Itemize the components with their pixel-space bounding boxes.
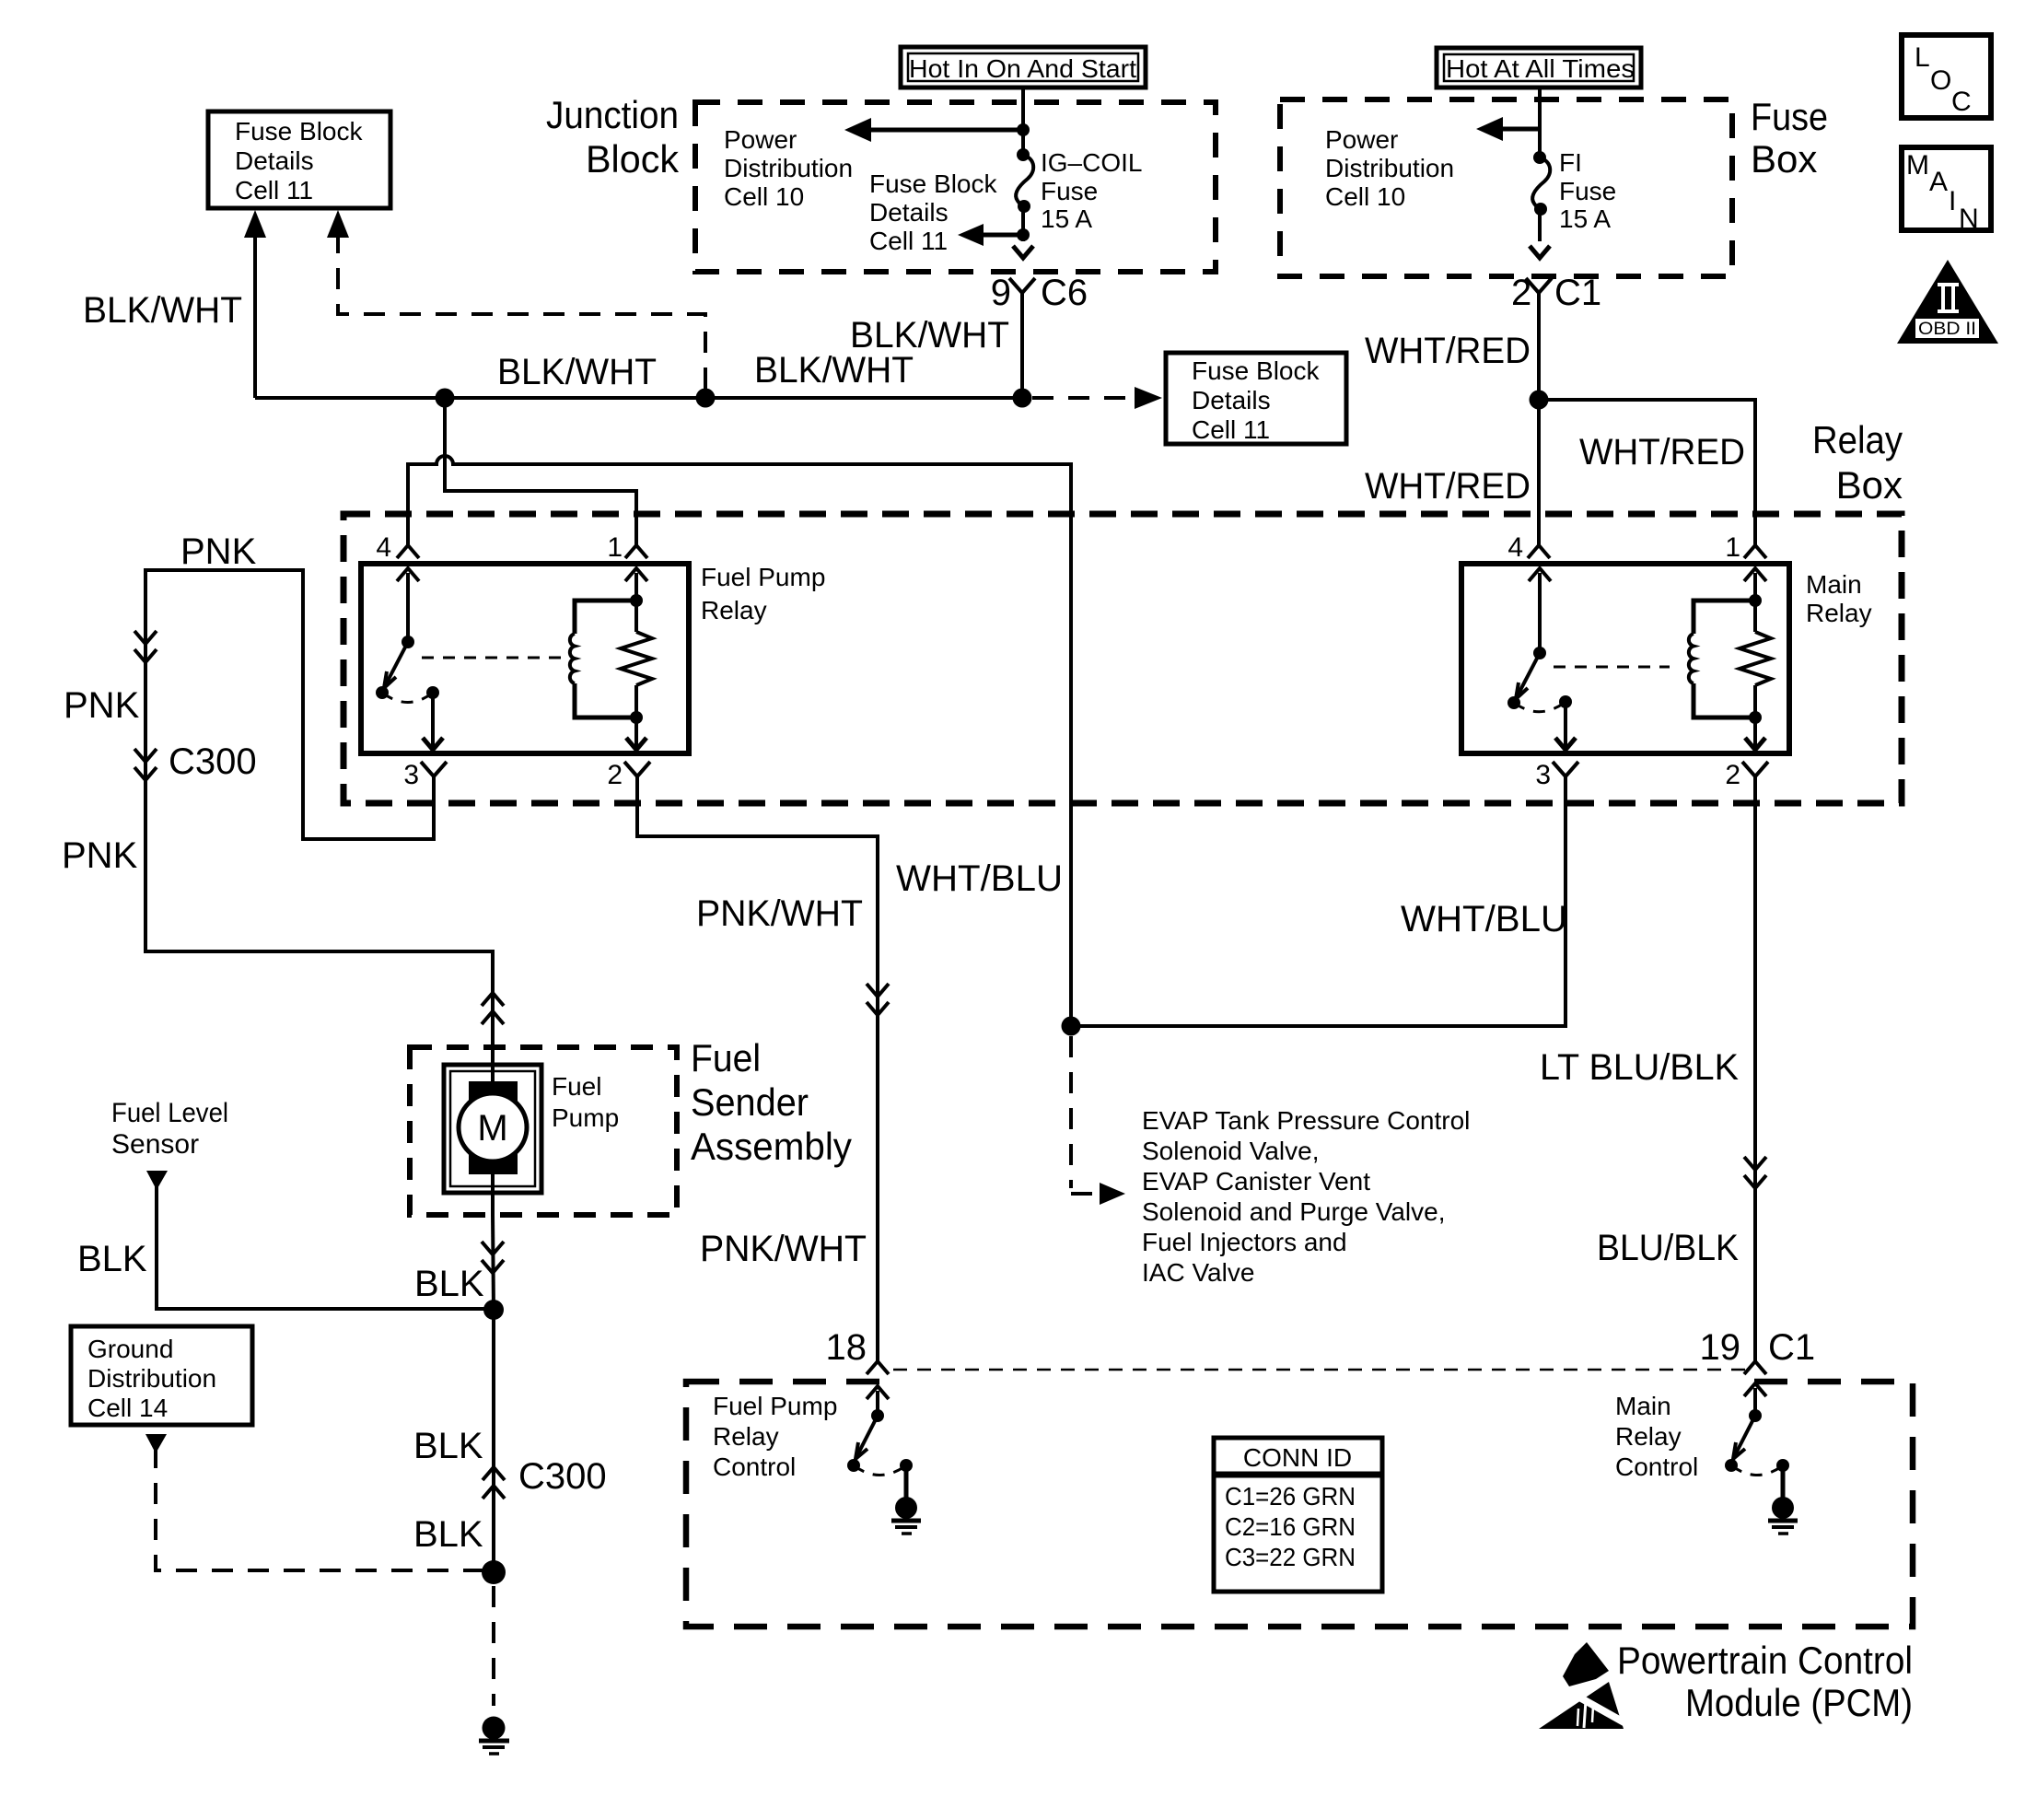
connector: inline chevrons on PNK/WHT: [867, 984, 889, 1015]
wire: dashed BLK/WHT to middle Fuse Block Details box with arrow: [1032, 387, 1162, 409]
resistor: fuel pump relay: [621, 632, 652, 685]
wire: solid BLK/WHT up-arrow into Fuse Block Details box: [244, 210, 266, 398]
node: junction dot B: [696, 389, 716, 408]
svg-text:Fuel Pump: Fuel Pump: [713, 1392, 837, 1420]
svg-text:EVAP Canister Vent: EVAP Canister Vent: [1142, 1167, 1370, 1196]
label: Relay Box: [1812, 418, 1903, 507]
svg-text:Cell 14: Cell 14: [87, 1394, 168, 1422]
wire: dashed EVAP branch with arrow: [1071, 1036, 1125, 1205]
svg-text:Sender: Sender: [691, 1080, 809, 1124]
svg-text:Distribution: Distribution: [724, 154, 853, 182]
node: WHT/RED junction dot: [1530, 391, 1549, 410]
svg-text:Sensor: Sensor: [111, 1129, 199, 1160]
svg-text:C300: C300: [169, 741, 257, 782]
svg-text:C3=22 GRN: C3=22 GRN: [1225, 1543, 1356, 1571]
arrow: open chevron down (fuse box exit): [1530, 246, 1550, 258]
svg-text:WHT/RED: WHT/RED: [1365, 331, 1531, 371]
label: Powertrain Control Module (PCM): [1617, 1639, 1913, 1724]
text: EVAP loads list: [1142, 1106, 1470, 1287]
svg-text:C1=26 GRN: C1=26 GRN: [1225, 1482, 1356, 1511]
svg-text:M: M: [1906, 150, 1929, 181]
box: Fuse Block Details Cell 11 (top left): [208, 111, 390, 208]
svg-text:Relay: Relay: [1812, 418, 1903, 461]
label: Fuse Box: [1751, 95, 1828, 181]
box: Ground Distribution Cell 14: [71, 1326, 252, 1425]
pin 3 connector (main relay): [1535, 760, 1578, 790]
label BLK (above C300): [413, 1426, 483, 1466]
text: Power Distribution Cell 10 (junction block): [724, 125, 853, 211]
label: Fuel Pump: [552, 1072, 619, 1132]
svg-text:PNK: PNK: [64, 685, 140, 726]
arrow: open chevron down (junction block exit): [1013, 246, 1033, 258]
dashed link: fuel pump relay coil to armature: [422, 657, 564, 659]
svg-text:9: 9: [991, 273, 1011, 313]
svg-text:Details: Details: [235, 146, 314, 175]
svg-text:I: I: [1949, 186, 1956, 216]
svg-text:C: C: [1951, 87, 1972, 117]
svg-text:BLU/BLK: BLU/BLK: [1597, 1228, 1739, 1268]
svg-text:Relay: Relay: [701, 596, 767, 624]
svg-text:Solenoid Valve,: Solenoid Valve,: [1142, 1137, 1320, 1165]
label: IG-COIL Fuse 15 A: [1041, 148, 1142, 233]
switch: main relay armature: [1507, 568, 1576, 750]
coil: main relay: [1689, 594, 1762, 724]
svg-text:OBD II: OBD II: [1918, 320, 1976, 339]
wire: thin dashed PCM top edge between pins: [891, 1370, 1746, 1390]
ground: G401 chassis ground: [479, 1717, 509, 1755]
arrow: fuse block details feed (left): [958, 206, 1030, 246]
svg-text:Hot At All Times: Hot At All Times: [1446, 54, 1635, 83]
svg-text:IAC Valve: IAC Valve: [1142, 1258, 1254, 1287]
label LT BLU/BLK: [1540, 1047, 1739, 1088]
wire: BLK below fuel pump: [493, 1215, 494, 1310]
label WHT/RED (left of pin 4 wire): [1365, 466, 1531, 507]
connector: C300 on PNK drop: [134, 741, 257, 782]
svg-text:M: M: [477, 1108, 507, 1149]
svg-text:BLK: BLK: [414, 1264, 484, 1304]
svg-text:19: 19: [1700, 1327, 1741, 1368]
svg-text:Power: Power: [1325, 125, 1398, 154]
text: Fuel Pump Relay Control: [713, 1392, 837, 1481]
switch: fuel pump relay armature: [376, 568, 443, 750]
label WHT/BLU (left of riser): [896, 858, 1063, 899]
pin 3 connector (fuel pump relay): [403, 760, 447, 790]
svg-text:Control: Control: [1615, 1452, 1698, 1481]
wire: BLK/WHT branch down from dot A to fuel pump relay pin 1: [445, 398, 636, 545]
wire: fuel level sensor BLK drop: [146, 1171, 494, 1309]
svg-text:N: N: [1959, 204, 1979, 234]
fuse: FI Fuse 15 A symbol: [1532, 151, 1550, 241]
svg-text:IG–COIL: IG–COIL: [1041, 148, 1142, 177]
connector: inline chevrons on LT BLU/BLK: [1744, 1157, 1766, 1188]
svg-text:BLK: BLK: [413, 1514, 483, 1555]
svg-text:BLK/WHT: BLK/WHT: [754, 350, 914, 391]
svg-text:Control: Control: [713, 1452, 796, 1481]
svg-text:Fuse Block: Fuse Block: [869, 169, 997, 198]
svg-text:Block: Block: [586, 137, 680, 181]
svg-text:PNK/WHT: PNK/WHT: [700, 1229, 867, 1269]
wire: dashed branch up-arrow into Fuse Block Details box: [327, 210, 705, 391]
wire: from Hot At All Times down to fuse: [1538, 87, 1542, 157]
wire: from Hot In On And Start down to fuse: [1017, 87, 1030, 155]
svg-text:Fuse Block: Fuse Block: [235, 117, 363, 146]
text: Power Distribution Cell 10 (fuse box): [1325, 125, 1454, 211]
box: Fuse Box dashed outline: [1280, 99, 1732, 276]
pin 2 connector (fuel pump relay): [607, 760, 650, 790]
svg-text:C2=16 GRN: C2=16 GRN: [1225, 1512, 1356, 1541]
node: BLK junction dot: [483, 1300, 504, 1320]
node: junction dot A: [436, 389, 455, 408]
svg-text:C300: C300: [518, 1456, 607, 1497]
text: Fuse Block Details Cell 11 (inside junction block): [869, 169, 997, 255]
resistor: main relay: [1740, 632, 1771, 685]
label PNK/WHT (upper): [696, 893, 863, 934]
motor: Fuel Pump M: [444, 1047, 541, 1215]
coil: fuel pump relay: [570, 594, 643, 724]
svg-text:L: L: [1915, 42, 1930, 73]
wire: dashed drop to ground: [492, 1586, 495, 1706]
wire: PNK path from fuel pump relay pin 3 to fuel pump: [145, 570, 493, 1047]
svg-text:15 A: 15 A: [1041, 204, 1092, 233]
label WHT/RED (inside branch loop): [1579, 432, 1745, 472]
pin 1 connector (fuel pump relay): [607, 532, 647, 563]
svg-text:Relay: Relay: [1806, 599, 1872, 627]
svg-text:Fuel: Fuel: [691, 1036, 761, 1079]
svg-text:WHT/BLU: WHT/BLU: [896, 858, 1063, 899]
svg-text:Distribution: Distribution: [1325, 154, 1454, 182]
wire: WHT/BLU horizontal to fuel pump relay pin 4 (with hop over): [408, 456, 1071, 1026]
connector: 2 C1: [1511, 273, 1601, 400]
relay: Main Relay: [1461, 564, 1872, 753]
svg-text:BLK: BLK: [413, 1426, 483, 1466]
ground: PCM internal ground (pin 18 side): [891, 1497, 921, 1534]
svg-text:Box: Box: [1836, 463, 1903, 507]
box: PCM dashed outline: [686, 1382, 1913, 1627]
wire: WHT/RED to main relay pin 4: [1537, 400, 1541, 545]
svg-text:15 A: 15 A: [1559, 204, 1611, 233]
svg-text:WHT/RED: WHT/RED: [1579, 432, 1745, 472]
svg-text:BLK: BLK: [77, 1239, 147, 1279]
label BLK (sensor wire): [77, 1239, 147, 1279]
svg-text:Fuel Level: Fuel Level: [111, 1098, 228, 1128]
table: CONN ID: [1214, 1438, 1382, 1592]
svg-text:18: 18: [826, 1327, 867, 1368]
svg-text:Distribution: Distribution: [87, 1364, 216, 1393]
svg-text:Main: Main: [1806, 570, 1862, 599]
label WHT/BLU (right segment): [1401, 899, 1567, 939]
label BLK/WHT (mid): [497, 352, 657, 392]
label BLK/WHT (upper right of dashed riser): [850, 315, 1009, 356]
svg-text:4: 4: [376, 532, 391, 563]
svg-text:Fuel Injectors and: Fuel Injectors and: [1142, 1228, 1347, 1256]
node: junction dot C: [1013, 389, 1032, 408]
label: Fuel Level Sensor: [111, 1098, 228, 1160]
svg-text:2: 2: [607, 760, 623, 790]
connector: 9 C6: [991, 273, 1088, 398]
svg-text:Cell 11: Cell 11: [869, 227, 948, 255]
svg-text:2: 2: [1725, 760, 1740, 790]
label: Fuel Sender Assembly: [691, 1036, 852, 1168]
svg-text:Fuse: Fuse: [1751, 95, 1828, 138]
label BLK (at fuel pump): [414, 1264, 484, 1304]
box: Relay Box dashed outline: [343, 514, 1902, 803]
svg-text:Fuse Block: Fuse Block: [1192, 356, 1320, 385]
svg-text:PNK: PNK: [62, 835, 138, 876]
svg-text:3: 3: [1535, 760, 1551, 790]
switch: fuel pump relay control driver: [847, 1386, 913, 1498]
connector: C300 on BLK drop: [483, 1456, 607, 1499]
svg-text:Cell 10: Cell 10: [724, 182, 804, 211]
svg-text:Details: Details: [869, 198, 949, 227]
svg-text:BLK/WHT: BLK/WHT: [497, 352, 657, 392]
svg-text:Relay: Relay: [1615, 1422, 1682, 1451]
svg-text:FI: FI: [1559, 148, 1582, 177]
svg-text:Cell 11: Cell 11: [1192, 415, 1270, 444]
arrow: power distribution feed (fuse box): [1476, 117, 1540, 141]
svg-text:PNK/WHT: PNK/WHT: [696, 893, 863, 934]
relay: Fuel Pump Relay: [361, 563, 825, 753]
symbol: ESD warning triangle: [1539, 1642, 1635, 1729]
label PNK (lower left): [62, 835, 138, 876]
svg-text:Fuse: Fuse: [1559, 177, 1616, 205]
pin 4 connector (main relay): [1507, 532, 1550, 563]
wire: main relay pin 2 to PCM pin 19: [1753, 776, 1757, 1361]
label PNK (top): [180, 531, 257, 572]
svg-text:Cell 11: Cell 11: [235, 176, 313, 204]
svg-text:PNK: PNK: [180, 531, 257, 572]
box: Junction Block dashed outline: [695, 102, 1216, 272]
svg-text:1: 1: [607, 532, 623, 563]
svg-text:A: A: [1929, 167, 1948, 197]
fuse: IG-COIL Fuse 15 A symbol: [1016, 148, 1033, 213]
svg-text:1: 1: [1725, 532, 1740, 563]
svg-text:BLK/WHT: BLK/WHT: [83, 290, 242, 331]
box: Fuel Sender Assembly dashed outline: [410, 1047, 677, 1215]
svg-text:WHT/RED: WHT/RED: [1365, 466, 1531, 507]
symbol: MAIN box: [1902, 147, 1991, 234]
label BLU/BLK: [1597, 1228, 1739, 1268]
label PNK/WHT (lower): [700, 1229, 867, 1269]
connector: pin 18 (PCM): [826, 1327, 890, 1374]
label BLK/WHT (top left): [83, 290, 242, 331]
switch: main relay control driver: [1725, 1383, 1789, 1498]
connector: inline chevrons up into fuel sender: [482, 993, 504, 1024]
svg-text:C1: C1: [1768, 1327, 1815, 1368]
label BLK/WHT (lower right of dashed riser): [754, 350, 914, 391]
svg-text:Box: Box: [1751, 137, 1817, 181]
svg-text:Hot In On And Start: Hot In On And Start: [909, 54, 1136, 83]
box: Hot In On And Start: [901, 47, 1146, 87]
label BLK (below C300): [413, 1514, 483, 1555]
pin 1 connector (main relay): [1725, 532, 1766, 563]
connector: pin 19 C1 (PCM): [1700, 1327, 1816, 1374]
svg-text:2: 2: [1511, 273, 1531, 313]
box: Hot At All Times: [1437, 48, 1641, 87]
svg-text:C1: C1: [1554, 273, 1601, 313]
symbol: LOC box: [1902, 35, 1991, 118]
label: FI Fuse 15 A: [1559, 148, 1616, 233]
connector: inline chevrons on PNK drop: [134, 631, 157, 662]
label: Junction Block: [546, 93, 680, 181]
svg-text:Solenoid and Purge Valve,: Solenoid and Purge Valve,: [1142, 1197, 1446, 1226]
label PNK (left): [64, 685, 140, 726]
svg-text:Cell 10: Cell 10: [1325, 182, 1405, 211]
box: Fuse Block Details Cell 11 (middle): [1166, 353, 1346, 444]
arrow: power distribution feed (left): [844, 118, 1023, 142]
pin 2 connector (main relay): [1725, 760, 1768, 790]
svg-text:Details: Details: [1192, 386, 1271, 414]
svg-text:Relay: Relay: [713, 1422, 779, 1451]
svg-text:Fuel: Fuel: [552, 1072, 601, 1101]
wire: WHT/RED branch right and down to main relay pin 1: [1539, 400, 1755, 545]
svg-text:WHT/BLU: WHT/BLU: [1401, 899, 1567, 939]
svg-text:LT BLU/BLK: LT BLU/BLK: [1540, 1047, 1739, 1088]
wire: dashed ground distribution branch: [145, 1434, 486, 1570]
svg-text:Fuel Pump: Fuel Pump: [701, 563, 825, 591]
svg-text:CONN ID: CONN ID: [1243, 1443, 1352, 1472]
svg-text:Powertrain Control: Powertrain Control: [1617, 1639, 1913, 1682]
node: ground junction dot: [482, 1560, 506, 1584]
connector: inline chevrons below fuel pump: [482, 1242, 504, 1273]
wire: BLK/WHT horizontal bus: [255, 396, 1022, 400]
svg-text:Assembly: Assembly: [691, 1125, 852, 1168]
svg-text:Ground: Ground: [87, 1335, 173, 1363]
dashed link: main relay coil to armature: [1554, 666, 1670, 669]
svg-text:Pump: Pump: [552, 1103, 619, 1132]
text: Main Relay Control: [1615, 1392, 1698, 1481]
wire: WHT/BLU from junction to main relay pin 3: [1071, 776, 1566, 1026]
svg-text:4: 4: [1507, 532, 1523, 563]
svg-text:Power: Power: [724, 125, 797, 154]
svg-text:O: O: [1930, 65, 1951, 96]
svg-text:3: 3: [403, 760, 419, 790]
label WHT/RED (above C1 junction): [1365, 331, 1531, 371]
svg-text:Module (PCM): Module (PCM): [1685, 1681, 1913, 1724]
ground: PCM internal ground (pin 19 side): [1768, 1497, 1798, 1534]
svg-text:EVAP Tank Pressure Control: EVAP Tank Pressure Control: [1142, 1106, 1470, 1135]
svg-text:Junction: Junction: [546, 93, 679, 136]
wire: main relay pin 1 internal: [1744, 568, 1766, 750]
wire: PNK/WHT from fuel pump relay pin 2 to PCM pin 18: [637, 776, 878, 1361]
symbol: OBD II triangle: [1897, 260, 1998, 344]
node: WHT/BLU junction dot: [1062, 1017, 1081, 1036]
wire: BLK down to C300 and ground junction: [492, 1310, 495, 1572]
svg-text:Fuse: Fuse: [1041, 177, 1098, 205]
svg-text:C6: C6: [1041, 273, 1088, 313]
svg-text:Main: Main: [1615, 1392, 1671, 1420]
pin 4 connector (fuel pump relay): [376, 532, 419, 563]
wire: fuel pump relay pin 1 internal: [625, 568, 647, 750]
